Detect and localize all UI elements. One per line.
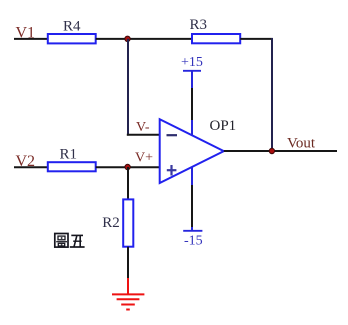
svg-text:R1: R1 [60, 146, 78, 162]
svg-text:OP1: OP1 [210, 118, 237, 134]
op-amp OP1 [160, 118, 236, 183]
power -15 [183, 231, 202, 249]
resistor R4 [48, 19, 96, 44]
svg-text:R4: R4 [63, 19, 81, 35]
wire [127, 134, 160, 136]
junction node B [125, 164, 130, 169]
wire [191, 71, 193, 136]
wire [96, 166, 160, 168]
resistor R3 [190, 17, 241, 44]
wire [96, 38, 192, 40]
wire [271, 38, 273, 151]
wire [14, 38, 48, 40]
svg-text:R2: R2 [102, 215, 120, 231]
svg-text:Vout: Vout [287, 135, 316, 151]
wire [14, 166, 48, 168]
svg-text:+15: +15 [181, 55, 203, 70]
svg-text:V-: V- [136, 120, 150, 135]
resistor R2 [102, 199, 133, 246]
resistor R1 [48, 146, 96, 171]
svg-text:V+: V+ [135, 151, 153, 166]
ground [112, 278, 144, 310]
wire [191, 167, 193, 231]
wire [127, 39, 129, 136]
svg-text:R3: R3 [190, 17, 208, 33]
svg-text:-15: -15 [184, 233, 203, 248]
power +15 [181, 55, 203, 71]
wire [224, 150, 337, 152]
junction node Vout [269, 148, 274, 153]
wire [240, 38, 273, 40]
junction node A [125, 36, 130, 41]
caption 圖五 (Figure 5) [55, 234, 85, 248]
wire [127, 167, 129, 200]
wire [127, 247, 129, 279]
